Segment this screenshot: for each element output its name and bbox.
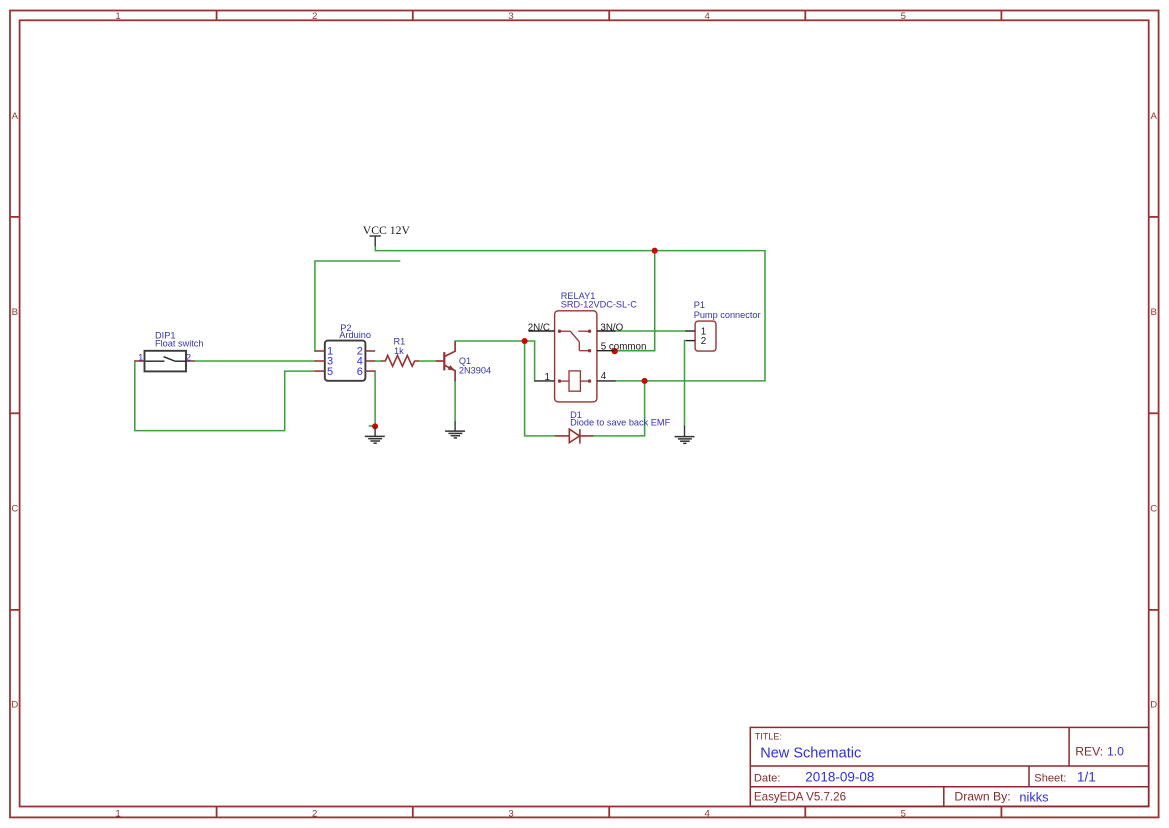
svg-text:Float switch: Float switch	[155, 338, 204, 348]
svg-text:VCC 12V: VCC 12V	[363, 224, 411, 237]
svg-text:6: 6	[357, 366, 363, 378]
svg-text:1k: 1k	[394, 346, 404, 356]
svg-text:2: 2	[701, 336, 706, 347]
svg-text:2N/C: 2N/C	[528, 322, 550, 333]
svg-text:5: 5	[901, 808, 906, 819]
svg-text:SRD-12VDC-SL-C: SRD-12VDC-SL-C	[561, 300, 637, 310]
svg-text:2: 2	[312, 808, 317, 819]
svg-text:3N/O: 3N/O	[600, 322, 623, 333]
svg-text:2: 2	[312, 11, 317, 22]
svg-text:2: 2	[186, 352, 191, 363]
svg-text:C: C	[1150, 503, 1157, 514]
svg-text:EasyEDA V5.7.26: EasyEDA V5.7.26	[754, 791, 846, 804]
svg-text:A: A	[1150, 111, 1157, 122]
svg-text:2018-09-08: 2018-09-08	[805, 770, 874, 785]
svg-text:B: B	[1150, 307, 1156, 318]
svg-text:4: 4	[705, 11, 711, 22]
svg-text:1: 1	[138, 352, 143, 363]
svg-text:Sheet:: Sheet:	[1034, 773, 1066, 785]
svg-text:3: 3	[508, 11, 513, 22]
svg-text:5: 5	[327, 366, 333, 378]
svg-text:REV:: REV:	[1075, 744, 1103, 758]
svg-text:Pump connector: Pump connector	[694, 310, 761, 320]
svg-text:Arduino: Arduino	[339, 330, 371, 340]
svg-text:Date:: Date:	[754, 773, 781, 785]
svg-text:1.0: 1.0	[1107, 744, 1124, 758]
svg-text:Drawn By:: Drawn By:	[954, 790, 1010, 804]
svg-text:D: D	[11, 700, 18, 711]
svg-text:4: 4	[705, 808, 711, 819]
svg-text:Diode to save back EMF: Diode to save back EMF	[570, 418, 670, 428]
svg-text:5: 5	[901, 11, 906, 22]
svg-text:5 common: 5 common	[601, 341, 647, 352]
svg-text:1: 1	[115, 808, 120, 819]
svg-text:New Schematic: New Schematic	[760, 746, 861, 762]
svg-text:C: C	[11, 503, 18, 514]
svg-text:P1: P1	[694, 300, 705, 310]
svg-text:D: D	[1150, 700, 1157, 711]
svg-text:B: B	[12, 307, 18, 318]
svg-text:3: 3	[508, 808, 513, 819]
svg-text:TITLE:: TITLE:	[755, 731, 782, 741]
svg-text:A: A	[12, 111, 19, 122]
svg-text:2N3904: 2N3904	[459, 365, 491, 375]
svg-text:1: 1	[115, 11, 120, 22]
svg-text:nikks: nikks	[1019, 790, 1048, 805]
svg-text:1: 1	[545, 372, 550, 383]
svg-text:1/1: 1/1	[1077, 770, 1096, 785]
svg-text:4: 4	[601, 371, 607, 382]
